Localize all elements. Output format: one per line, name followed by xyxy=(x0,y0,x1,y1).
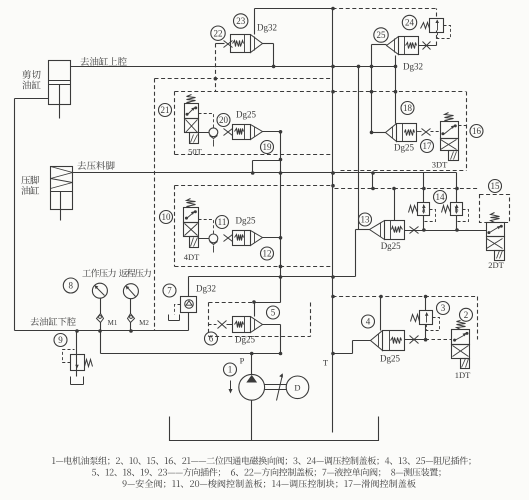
svg-text:Dg32: Dg32 xyxy=(196,284,216,294)
svg-text:4: 4 xyxy=(366,317,371,327)
svg-text:Dg25: Dg25 xyxy=(394,143,414,153)
svg-text:b: b xyxy=(455,205,459,214)
svg-text:2DT: 2DT xyxy=(488,260,504,270)
svg-text:12: 12 xyxy=(263,249,272,259)
svg-text:M1: M1 xyxy=(108,319,118,327)
svg-text:20: 20 xyxy=(219,115,229,125)
svg-text:16: 16 xyxy=(472,126,482,136)
svg-text:10: 10 xyxy=(162,212,172,222)
svg-text:17: 17 xyxy=(423,141,433,151)
svg-text:1DT: 1DT xyxy=(455,370,471,380)
svg-text:6: 6 xyxy=(209,334,214,344)
svg-text:23: 23 xyxy=(236,16,246,26)
svg-text:2: 2 xyxy=(464,310,469,320)
svg-text:8: 8 xyxy=(69,281,74,291)
svg-text:4DT: 4DT xyxy=(184,252,200,262)
svg-text:3: 3 xyxy=(441,303,446,313)
svg-text:22: 22 xyxy=(214,28,223,38)
svg-text:21: 21 xyxy=(161,105,170,115)
svg-text:T: T xyxy=(323,358,329,368)
svg-text:11: 11 xyxy=(218,217,227,227)
svg-text:9: 9 xyxy=(58,335,63,345)
svg-text:Dg25: Dg25 xyxy=(236,216,256,226)
svg-text:Dg25: Dg25 xyxy=(381,241,401,251)
svg-text:M2: M2 xyxy=(139,319,149,327)
svg-text:1: 1 xyxy=(228,365,233,375)
svg-text:13: 13 xyxy=(361,215,371,225)
svg-text:Dg25: Dg25 xyxy=(380,354,400,364)
svg-text:25: 25 xyxy=(377,30,387,40)
svg-text:3DT: 3DT xyxy=(432,160,448,170)
svg-text:Dg32: Dg32 xyxy=(403,62,423,72)
svg-text:D: D xyxy=(294,383,300,393)
svg-text:15: 15 xyxy=(491,181,501,191)
svg-text:50T: 50T xyxy=(188,147,203,157)
svg-text:14: 14 xyxy=(436,192,446,202)
svg-text:7: 7 xyxy=(167,286,172,296)
svg-text:P: P xyxy=(240,356,245,366)
svg-text:24: 24 xyxy=(405,18,415,28)
svg-text:18: 18 xyxy=(403,103,413,113)
svg-text:Dg25: Dg25 xyxy=(235,335,255,345)
svg-text:19: 19 xyxy=(263,142,273,152)
svg-text:5: 5 xyxy=(271,308,276,318)
svg-text:Dg32: Dg32 xyxy=(257,23,277,33)
svg-text:Dg25: Dg25 xyxy=(236,110,256,120)
svg-text:a: a xyxy=(422,205,426,214)
